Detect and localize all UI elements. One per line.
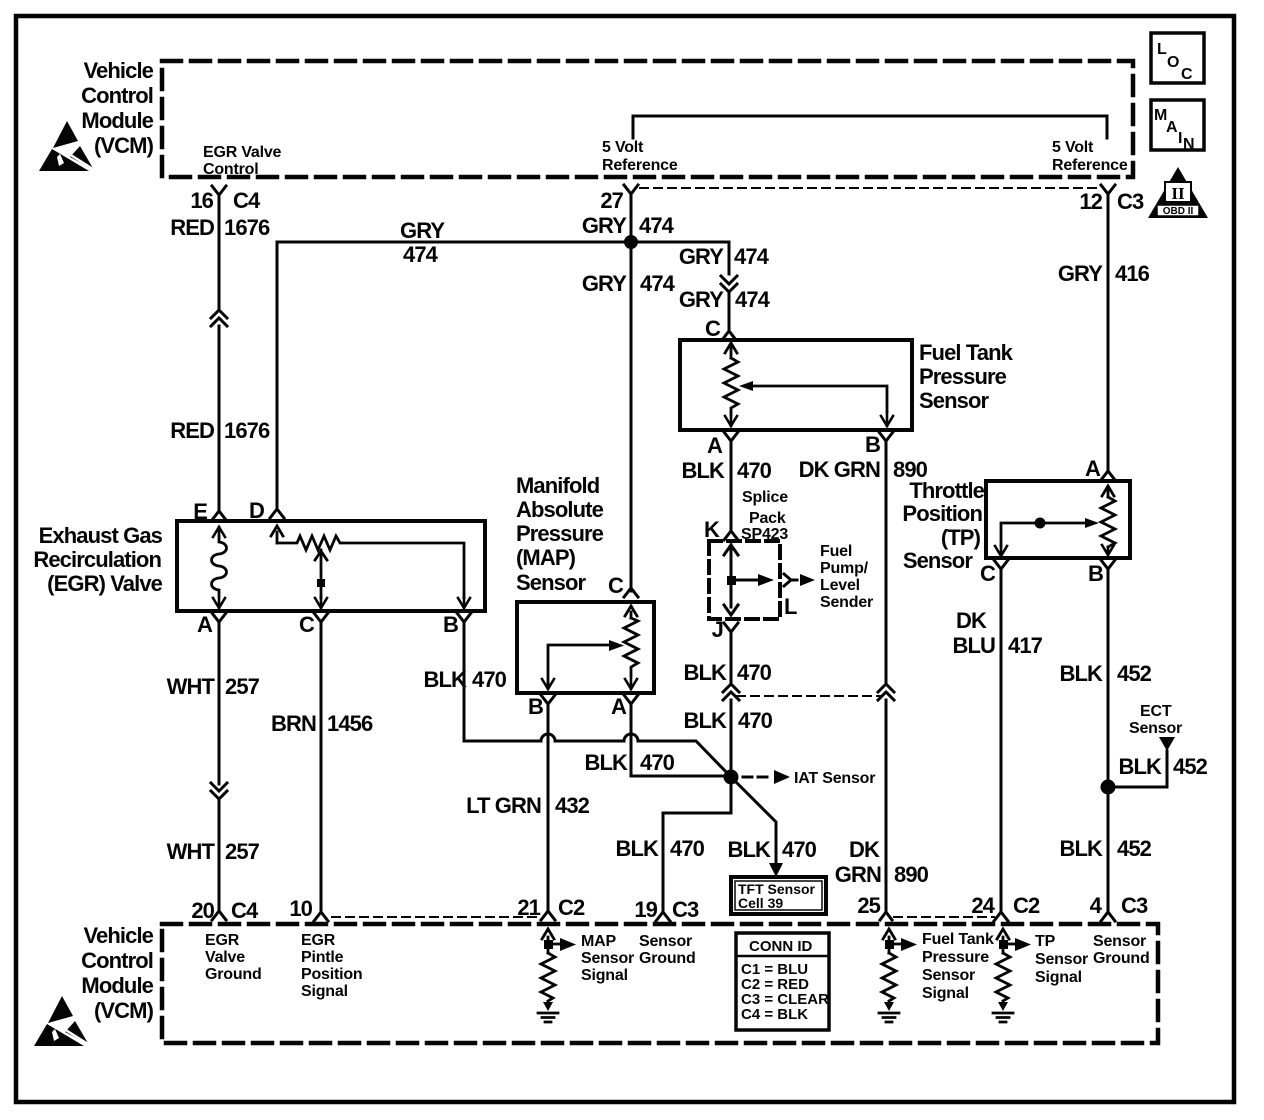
svg-text:Sensor: Sensor (639, 933, 692, 950)
pin 4 C3 (1090, 893, 1148, 921)
wire RED 1676 upper segment (218, 200, 221, 311)
harness dashed line to DK GRN break (737, 695, 880, 697)
label GRY 474 (above node) (582, 213, 675, 238)
svg-text:474: 474 (735, 287, 771, 312)
svg-text:O: O (1167, 54, 1179, 71)
wire RED 1676 lower segment (218, 326, 221, 506)
svg-text:BLK: BLK (681, 458, 725, 483)
svg-text:GRY: GRY (679, 287, 724, 312)
svg-text:Sender: Sender (820, 594, 873, 611)
svg-text:C: C (980, 561, 996, 586)
pin 20 C4 (191, 898, 259, 923)
label BLK 470 (EGR B wire) (423, 667, 506, 692)
svg-text:1676: 1676 (224, 418, 270, 443)
svg-text:Signal: Signal (301, 983, 348, 1000)
label BLK 470 (fuel tank A) (681, 458, 771, 483)
svg-text:L: L (1157, 41, 1167, 58)
svg-text:470: 470 (670, 836, 705, 861)
junction dot (ECT branch) (1101, 780, 1116, 795)
label BLK 452 (upper) (1059, 661, 1151, 686)
pin B (EGR) (443, 612, 471, 637)
svg-text:BLK: BLK (423, 667, 467, 692)
svg-text:25: 25 (857, 893, 880, 918)
svg-text:D: D (249, 498, 264, 523)
svg-text:Cell 39: Cell 39 (738, 895, 783, 911)
svg-text:BLK: BLK (1118, 754, 1162, 779)
5 Volt Reference label (right) (1052, 139, 1128, 174)
svg-text:452: 452 (1117, 661, 1152, 686)
svg-text:Pump/: Pump/ (820, 560, 869, 577)
svg-text:474: 474 (734, 244, 770, 269)
connector dashed line (pins 25-24) (894, 916, 994, 918)
splice pack SP423 dashed box (709, 541, 780, 619)
svg-text:Ground: Ground (205, 966, 262, 983)
svg-text:Sensor: Sensor (1093, 933, 1146, 950)
IAT sensor dashed arrow (743, 770, 875, 787)
svg-text:IAT Sensor: IAT Sensor (794, 770, 875, 787)
svg-text:Pressure: Pressure (919, 364, 1007, 389)
label GRY 474 (below node) (582, 271, 676, 296)
svg-text:Pintle: Pintle (301, 949, 344, 966)
label LT GRN 432 (466, 793, 590, 818)
svg-text:890: 890 (894, 862, 929, 887)
svg-text:A: A (1166, 119, 1178, 136)
pin 25 (857, 893, 892, 920)
pin C (TP sensor) (980, 560, 1008, 586)
svg-text:Signal: Signal (922, 985, 969, 1002)
svg-text:C3: C3 (1121, 893, 1148, 918)
pin 19 C3 (634, 897, 699, 922)
VCM top module label (81, 58, 154, 158)
junction node (sensor ground bus) (724, 770, 739, 785)
pin 21 C2 (517, 895, 585, 920)
EGR Valve Control label (203, 144, 282, 178)
EGR valve box (177, 521, 485, 611)
wire DK BLU 417 to pin 24 (1000, 575, 1003, 907)
fuel tank pressure sensor signal internal circuit (879, 929, 917, 1022)
svg-text:BRN: BRN (271, 711, 316, 736)
label BLK 470 (TFT wire) (727, 837, 816, 862)
svg-text:DK: DK (956, 608, 987, 633)
svg-text:Recirculation: Recirculation (33, 547, 161, 572)
connector dashed line (pins 10-21) (332, 916, 540, 918)
pin C (EGR) (299, 612, 328, 637)
Throttle Position sensor box (986, 481, 1130, 558)
label DK GRN 890 (799, 457, 928, 482)
splice pack internal bus (724, 545, 774, 615)
svg-text:Position: Position (902, 501, 982, 526)
svg-text:416: 416 (1115, 261, 1150, 286)
MAP sensor box (517, 602, 654, 693)
fuel tank sensor wiper from B (739, 381, 893, 426)
svg-text:C4 = BLK: C4 = BLK (741, 1006, 808, 1023)
label BLK 470 (pin 19 wire) (615, 836, 704, 861)
svg-text:(MAP): (MAP) (516, 545, 576, 570)
svg-text:EGR: EGR (205, 932, 240, 949)
svg-text:(VCM): (VCM) (94, 998, 154, 1023)
label GRY 474 (horizontal wire) (400, 218, 445, 267)
svg-text:TP: TP (1035, 933, 1056, 950)
svg-text:19: 19 (634, 897, 657, 922)
svg-text:EGR: EGR (301, 932, 336, 949)
TP sensor signal internal circuit (993, 929, 1031, 1022)
wire WHT 257 lower segment (218, 799, 221, 906)
svg-text:LT GRN: LT GRN (466, 793, 541, 818)
pin E (EGR) (193, 499, 226, 524)
svg-text:Absolute: Absolute (516, 497, 604, 522)
svg-text:470: 470 (738, 708, 773, 733)
svg-text:B: B (1088, 561, 1103, 586)
svg-text:(EGR) Valve: (EGR) Valve (47, 571, 162, 596)
svg-text:5 Volt: 5 Volt (602, 139, 644, 156)
pin L fork (to fuel pump) (784, 574, 815, 619)
svg-text:Throttle: Throttle (909, 478, 984, 503)
label BLK 470 (below break) (683, 708, 772, 733)
svg-text:5 Volt: 5 Volt (1052, 139, 1094, 156)
svg-text:Control: Control (81, 948, 153, 973)
TFT arrow into box (769, 863, 783, 877)
label BRN 1456 (271, 711, 373, 736)
pin 10 (289, 896, 328, 921)
svg-text:BLK: BLK (683, 660, 727, 685)
inline connector break (BLK 470) (723, 684, 739, 700)
svg-text:Sensor: Sensor (516, 570, 587, 595)
wire to TFT sensor (731, 777, 776, 863)
label BLK 452 (lower) (1059, 836, 1151, 861)
svg-text:B: B (865, 432, 880, 457)
5 Volt Reference label (left) (602, 139, 678, 174)
wire BLK 470 fuel tank A to splice K (730, 447, 733, 528)
label RED 1676 (lower) (170, 418, 270, 443)
svg-text:GRN: GRN (835, 862, 881, 887)
wire GRY 474 branch lower (728, 292, 731, 330)
svg-text:B: B (528, 694, 543, 719)
VCM bottom module dashed box (162, 924, 1158, 1043)
svg-text:C2: C2 (1013, 893, 1040, 918)
pin 16 C4 (190, 186, 261, 213)
wire DK GRN 890 fuel tank B to pin 25 (885, 447, 888, 684)
svg-text:1676: 1676 (224, 215, 270, 240)
inline connector break (RED wire) (211, 310, 227, 326)
EGR valve label (33, 523, 162, 596)
svg-text:A: A (1085, 456, 1101, 481)
svg-text:A: A (707, 433, 723, 458)
svg-text:C3: C3 (1117, 189, 1144, 214)
svg-text:EGR Valve: EGR Valve (203, 144, 282, 161)
svg-text:Module: Module (81, 108, 153, 133)
svg-text:DK GRN: DK GRN (799, 457, 880, 482)
label DK BLU 417 (952, 608, 1042, 658)
svg-text:Sensor: Sensor (1035, 951, 1088, 968)
svg-text:Fuel: Fuel (820, 543, 852, 560)
wire BLK 452 TP B to pin 4 (1107, 575, 1110, 907)
svg-text:Reference: Reference (602, 157, 678, 174)
pin A (fuel tank sensor) (707, 432, 738, 458)
svg-text:Ground: Ground (1093, 950, 1150, 967)
label WHT 257 (upper) (167, 674, 260, 699)
svg-text:470: 470 (472, 667, 507, 692)
svg-text:WHT: WHT (167, 839, 216, 864)
wire BRN 1456 (320, 628, 323, 908)
MAIN box (1151, 100, 1204, 153)
pin 27 (600, 185, 638, 213)
svg-text:GRY: GRY (582, 271, 627, 296)
wire BLK 470 MAP A down to node (631, 710, 731, 776)
Sensor Ground label (pin 19) (639, 933, 696, 967)
label RED 1676 (upper) (170, 215, 270, 240)
pin C (Fuel Tank Pressure Sensor) (705, 316, 736, 341)
label GRY 474 (branch lower) (679, 287, 771, 312)
ESD symbol (top left) (39, 121, 96, 171)
MAP wiper from B (542, 640, 624, 689)
fuel tank sensor resistor (724, 343, 738, 426)
EGR solenoid coil E to A (212, 527, 227, 608)
svg-text:Fuel Tank: Fuel Tank (919, 340, 1014, 365)
label GRY 416 (1058, 261, 1150, 286)
svg-text:(TP): (TP) (941, 525, 981, 550)
svg-text:474: 474 (640, 271, 676, 296)
MAP sensor label (516, 473, 604, 595)
svg-text:MAP: MAP (581, 933, 616, 950)
svg-text:RED: RED (170, 418, 214, 443)
EGR pintle potentiometer (271, 526, 470, 608)
svg-text:C2: C2 (558, 895, 585, 920)
Fuel Tank Pressure Sensor label (919, 340, 1014, 413)
5 volt reference bus bracket (633, 116, 1107, 138)
Fuel Tank Pressure Sensor box (680, 340, 912, 430)
svg-text:452: 452 (1173, 754, 1208, 779)
svg-text:Control: Control (203, 161, 258, 178)
label BLK 452 (ECT branch) (1118, 754, 1207, 779)
svg-text:Pack: Pack (749, 510, 786, 527)
TP sensor label (902, 478, 984, 573)
svg-text:Valve: Valve (205, 949, 245, 966)
MAP Sensor Signal label (581, 933, 634, 984)
svg-text:Control: Control (81, 83, 153, 108)
svg-text:K: K (704, 517, 720, 542)
label GRY 474 (branch upper) (679, 244, 770, 269)
TP wiper (995, 518, 1099, 557)
wire BLK 470 from EGR B (with hops) (464, 628, 731, 777)
svg-text:WHT: WHT (167, 674, 216, 699)
pin B (MAP) (528, 694, 555, 719)
Fuel Tank Pressure Sensor Signal label (922, 931, 994, 1002)
svg-text:E: E (193, 499, 207, 524)
svg-text:C: C (1181, 66, 1193, 83)
wire sensor ground to pin 19 (663, 777, 731, 907)
svg-text:Vehicle: Vehicle (83, 923, 153, 948)
wire BLK 470 break down to node (730, 700, 733, 813)
svg-text:(VCM): (VCM) (94, 133, 154, 158)
svg-text:ECT: ECT (1140, 703, 1172, 720)
pin 12 C3 (1079, 185, 1144, 214)
ECT Sensor label (1129, 703, 1182, 737)
svg-text:Pressure: Pressure (516, 521, 604, 546)
VCM bottom module label (81, 923, 154, 1023)
svg-text:27: 27 (600, 188, 623, 213)
svg-text:470: 470 (737, 458, 772, 483)
svg-text:BLK: BLK (727, 837, 771, 862)
svg-text:Signal: Signal (581, 967, 628, 984)
Sensor Ground label (pin 4) (1093, 933, 1150, 967)
svg-text:470: 470 (640, 750, 675, 775)
svg-text:Sensor: Sensor (1129, 720, 1182, 737)
inline connector break (DK GRN) (878, 684, 894, 700)
svg-text:BLK: BLK (1059, 836, 1103, 861)
EGR pintle wiper to C (315, 550, 327, 608)
TP resistor (1101, 486, 1115, 555)
svg-text:Position: Position (301, 966, 363, 983)
svg-text:DK: DK (849, 837, 880, 862)
label DK GRN 890 (lower) (835, 837, 929, 887)
label BLK 470 (MAP A wire) (584, 750, 674, 775)
Fuel Pump / Level Sender label (820, 543, 873, 611)
svg-text:C3: C3 (672, 897, 699, 922)
wire GRY 474 branch to Fuel Tank C (631, 242, 729, 274)
svg-text:BLU: BLU (952, 633, 995, 658)
pin 24 C2 (971, 893, 1040, 921)
svg-text:474: 474 (403, 242, 439, 267)
svg-text:10: 10 (289, 896, 312, 921)
svg-text:Level: Level (820, 577, 860, 594)
svg-text:452: 452 (1117, 836, 1152, 861)
svg-text:Signal: Signal (1035, 969, 1082, 986)
svg-text:GRY: GRY (400, 218, 445, 243)
pin B (TP sensor) (1088, 560, 1115, 586)
svg-text:Pressure: Pressure (922, 949, 989, 966)
pin J (splice pack) (712, 617, 738, 642)
wire BLK 470 J down to break (730, 638, 733, 685)
label BLK 470 (above break) (683, 660, 771, 685)
MAP sensor signal internal circuit (538, 929, 576, 1022)
inline connector break (GRY branch) (721, 276, 737, 292)
svg-text:Sensor: Sensor (919, 388, 990, 413)
svg-text:I: I (1178, 130, 1182, 147)
svg-text:470: 470 (737, 660, 772, 685)
svg-text:Splice: Splice (742, 489, 788, 506)
svg-text:Module: Module (81, 973, 153, 998)
wire BLK 452 ECT branch (1108, 751, 1167, 787)
svg-text:Sensor: Sensor (922, 967, 975, 984)
TP Sensor Signal label (1035, 933, 1088, 986)
svg-text:470: 470 (782, 837, 817, 862)
svg-text:L: L (784, 594, 797, 619)
svg-text:24: 24 (971, 893, 995, 918)
svg-text:Fuel Tank: Fuel Tank (922, 931, 994, 948)
svg-text:Vehicle: Vehicle (83, 58, 153, 83)
svg-text:Manifold: Manifold (516, 473, 599, 498)
svg-text:Exhaust Gas: Exhaust Gas (39, 523, 163, 548)
wire GRY 474 horizontal from EGR D to node (277, 242, 631, 503)
svg-text:16: 16 (190, 188, 213, 213)
ECT sensor arrow (1159, 737, 1175, 751)
EGR Pintle Position Signal label (301, 932, 363, 1000)
svg-text:OBD II: OBD II (1163, 206, 1194, 217)
svg-text:474: 474 (639, 213, 675, 238)
svg-text:Ground: Ground (639, 950, 696, 967)
svg-text:B: B (443, 612, 458, 637)
svg-text:257: 257 (225, 674, 260, 699)
inline connector break (WHT wire) (211, 783, 227, 799)
svg-text:Sensor: Sensor (903, 548, 974, 573)
svg-text:GRY: GRY (679, 244, 724, 269)
svg-text:1456: 1456 (327, 711, 373, 736)
pin A (EGR) (197, 612, 226, 637)
ESD symbol (bottom left) (34, 996, 91, 1046)
svg-text:Sensor: Sensor (581, 950, 634, 967)
svg-text:C: C (608, 573, 624, 598)
svg-text:417: 417 (1008, 633, 1043, 658)
svg-text:BLK: BLK (1059, 661, 1103, 686)
svg-text:257: 257 (225, 839, 260, 864)
Splice Pack label (741, 489, 788, 543)
svg-text:C4: C4 (231, 898, 259, 923)
svg-text:GRY: GRY (582, 213, 627, 238)
wire LT GRN 432 MAP B to pin 21 (547, 710, 550, 906)
OBD II symbol (1148, 167, 1208, 218)
EGR Valve Ground label (205, 932, 262, 983)
pin A (TP sensor) (1085, 456, 1115, 481)
svg-text:RED: RED (170, 215, 214, 240)
svg-text:J: J (712, 617, 723, 642)
svg-text:C: C (705, 316, 721, 341)
wire GRY 416 from pin 12 to TP A (1107, 200, 1110, 470)
TFT Sensor box (731, 877, 826, 914)
svg-text:C: C (299, 612, 315, 637)
pin A (MAP) (611, 694, 638, 719)
svg-text:C4: C4 (233, 188, 261, 213)
svg-text:GRY: GRY (1058, 261, 1103, 286)
MAP resistor (624, 606, 638, 689)
svg-text:Reference: Reference (1052, 157, 1128, 174)
svg-text:N: N (1183, 136, 1194, 153)
junction node dot (624, 235, 638, 249)
CONN ID table box (736, 933, 829, 1030)
svg-text:BLK: BLK (615, 836, 659, 861)
pin K (splice pack) (704, 517, 738, 542)
wire GRY 474 from pin 27 down to MAP C (630, 200, 633, 591)
svg-text:II: II (1171, 184, 1185, 203)
svg-text:BLK: BLK (683, 708, 727, 733)
svg-text:432: 432 (555, 793, 590, 818)
svg-text:CONN ID: CONN ID (749, 938, 813, 955)
label WHT 257 (lower) (167, 839, 260, 864)
connector C3 dashed line (top) (640, 187, 1100, 189)
VCM top module dashed box (162, 61, 1133, 177)
pin B (fuel tank sensor) (865, 432, 893, 457)
svg-text:12: 12 (1079, 189, 1102, 214)
wire WHT 257 upper segment (218, 628, 221, 784)
svg-text:A: A (197, 612, 213, 637)
pin C (MAP) (608, 573, 638, 598)
svg-text:BLK: BLK (584, 750, 628, 775)
svg-text:4: 4 (1090, 893, 1103, 918)
LOC box (1151, 33, 1204, 83)
pin D (EGR) (249, 498, 284, 523)
